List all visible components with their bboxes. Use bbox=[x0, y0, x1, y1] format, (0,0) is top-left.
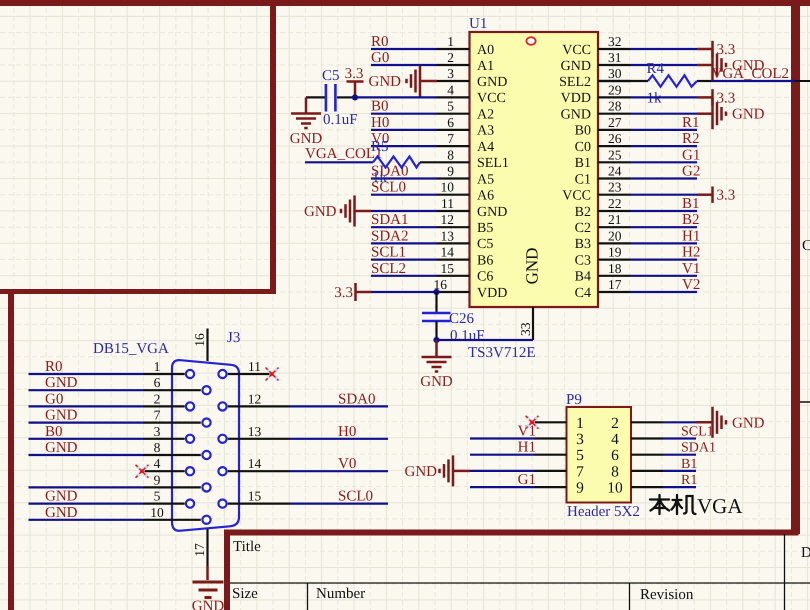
svg-text:3.3: 3.3 bbox=[334, 285, 353, 301]
svg-text:GND: GND bbox=[192, 599, 225, 610]
svg-text:6: 6 bbox=[611, 447, 619, 464]
svg-text:9: 9 bbox=[447, 164, 454, 179]
svg-text:8: 8 bbox=[154, 440, 161, 455]
svg-text:18: 18 bbox=[608, 261, 622, 276]
svg-text:GND: GND bbox=[290, 131, 323, 147]
svg-text:27: 27 bbox=[608, 115, 622, 130]
svg-text:GND: GND bbox=[477, 75, 507, 90]
svg-text:SDA1: SDA1 bbox=[681, 441, 716, 456]
svg-text:GND: GND bbox=[561, 59, 591, 74]
svg-text:B1: B1 bbox=[681, 457, 697, 472]
svg-text:VGA_COL2: VGA_COL2 bbox=[712, 66, 790, 82]
svg-text:26: 26 bbox=[608, 131, 622, 146]
svg-text:A2: A2 bbox=[477, 108, 494, 123]
svg-text:20: 20 bbox=[608, 228, 622, 243]
svg-text:GND: GND bbox=[304, 204, 337, 220]
svg-text:12: 12 bbox=[248, 391, 262, 406]
svg-text:R4: R4 bbox=[647, 61, 665, 77]
svg-text:3: 3 bbox=[447, 66, 454, 81]
svg-text:B1: B1 bbox=[575, 156, 591, 171]
svg-text:H0: H0 bbox=[338, 424, 356, 440]
svg-text:Header 5X2: Header 5X2 bbox=[567, 504, 640, 520]
svg-text:0.1uF: 0.1uF bbox=[323, 112, 358, 128]
svg-text:1: 1 bbox=[154, 359, 161, 374]
svg-text:B0: B0 bbox=[45, 424, 63, 440]
svg-text:A0: A0 bbox=[477, 43, 494, 58]
svg-text:7: 7 bbox=[447, 131, 454, 146]
svg-text:Number: Number bbox=[316, 586, 365, 602]
svg-text:24: 24 bbox=[608, 164, 622, 179]
svg-text:GND: GND bbox=[523, 248, 542, 285]
svg-text:A1: A1 bbox=[477, 59, 494, 74]
svg-text:32: 32 bbox=[608, 34, 622, 49]
svg-text:B0: B0 bbox=[371, 99, 389, 115]
svg-text:V2: V2 bbox=[682, 277, 700, 293]
svg-text:B3: B3 bbox=[575, 237, 591, 252]
svg-text:2: 2 bbox=[447, 50, 454, 65]
svg-text:H2: H2 bbox=[682, 245, 700, 261]
svg-text:14: 14 bbox=[248, 456, 262, 471]
svg-text:17: 17 bbox=[192, 543, 207, 557]
svg-text:GND: GND bbox=[45, 408, 78, 424]
svg-text:11: 11 bbox=[441, 196, 454, 211]
svg-text:R1: R1 bbox=[681, 473, 697, 488]
svg-text:31: 31 bbox=[608, 50, 622, 65]
svg-text:D: D bbox=[801, 545, 810, 561]
svg-text:4: 4 bbox=[611, 431, 619, 448]
svg-text:SCL1: SCL1 bbox=[371, 245, 406, 261]
svg-text:G1: G1 bbox=[682, 147, 700, 163]
svg-text:C0: C0 bbox=[575, 140, 591, 155]
svg-text:3.3: 3.3 bbox=[717, 188, 736, 204]
svg-text:9: 9 bbox=[154, 472, 161, 487]
svg-text:13: 13 bbox=[248, 424, 262, 439]
svg-text:8: 8 bbox=[611, 463, 619, 480]
svg-text:V1: V1 bbox=[682, 261, 700, 277]
svg-text:10: 10 bbox=[607, 480, 623, 497]
svg-text:DB15_VGA: DB15_VGA bbox=[93, 341, 169, 357]
svg-text:2: 2 bbox=[611, 415, 619, 432]
svg-text:GND: GND bbox=[405, 464, 438, 480]
svg-text:C1: C1 bbox=[575, 172, 591, 187]
svg-text:G0: G0 bbox=[371, 50, 389, 66]
svg-text:A5: A5 bbox=[477, 172, 494, 187]
svg-text:1: 1 bbox=[447, 34, 454, 49]
svg-text:GND: GND bbox=[477, 205, 507, 220]
svg-text:28: 28 bbox=[608, 99, 622, 114]
svg-text:19: 19 bbox=[608, 245, 622, 260]
svg-text:3.3: 3.3 bbox=[717, 90, 736, 106]
svg-text:A3: A3 bbox=[477, 124, 494, 139]
svg-text:SEL1: SEL1 bbox=[477, 156, 509, 171]
svg-text:H0: H0 bbox=[371, 115, 389, 131]
svg-text:GND: GND bbox=[561, 108, 591, 123]
svg-text:GND: GND bbox=[45, 440, 78, 456]
svg-text:5: 5 bbox=[576, 447, 584, 464]
svg-text:14: 14 bbox=[441, 245, 455, 260]
svg-text:29: 29 bbox=[608, 82, 622, 97]
svg-text:15: 15 bbox=[441, 261, 455, 276]
svg-text:3.3: 3.3 bbox=[345, 66, 364, 82]
svg-text:R1: R1 bbox=[682, 115, 700, 131]
svg-text:VGA: VGA bbox=[697, 494, 743, 518]
svg-text:6: 6 bbox=[447, 115, 454, 130]
svg-text:R0: R0 bbox=[371, 34, 389, 50]
svg-text:7: 7 bbox=[576, 463, 584, 480]
svg-text:11: 11 bbox=[248, 359, 261, 374]
svg-text:G0: G0 bbox=[45, 391, 63, 407]
svg-text:SCL0: SCL0 bbox=[338, 489, 373, 505]
svg-text:3.3: 3.3 bbox=[717, 42, 736, 58]
svg-text:SEL2: SEL2 bbox=[559, 75, 591, 90]
svg-text:23: 23 bbox=[608, 180, 622, 195]
svg-text:VDD: VDD bbox=[477, 286, 507, 301]
svg-text:GND: GND bbox=[420, 374, 453, 390]
svg-text:C: C bbox=[802, 238, 810, 254]
svg-text:12: 12 bbox=[441, 212, 455, 227]
svg-text:VDD: VDD bbox=[561, 91, 591, 106]
svg-text:SDA1: SDA1 bbox=[371, 212, 409, 228]
svg-text:H1: H1 bbox=[518, 440, 536, 456]
svg-text:B6: B6 bbox=[477, 253, 493, 268]
svg-text:3: 3 bbox=[576, 431, 584, 448]
svg-text:1k: 1k bbox=[372, 170, 388, 186]
svg-text:C5: C5 bbox=[322, 68, 340, 84]
svg-text:B4: B4 bbox=[575, 270, 591, 285]
svg-text:C2: C2 bbox=[575, 221, 591, 236]
svg-text:VCC: VCC bbox=[477, 91, 506, 106]
svg-text:B0: B0 bbox=[575, 124, 591, 139]
svg-text:H1: H1 bbox=[682, 228, 700, 244]
svg-text:A4: A4 bbox=[477, 140, 494, 155]
svg-text:5: 5 bbox=[447, 99, 454, 114]
svg-text:25: 25 bbox=[608, 147, 622, 162]
svg-text:A6: A6 bbox=[477, 189, 494, 204]
svg-text:0.1uF: 0.1uF bbox=[450, 328, 485, 344]
svg-text:B5: B5 bbox=[477, 221, 493, 236]
svg-text:VCC: VCC bbox=[562, 189, 591, 204]
svg-text:C6: C6 bbox=[477, 270, 493, 285]
svg-text:SCL2: SCL2 bbox=[371, 261, 406, 277]
svg-text:GND: GND bbox=[45, 505, 78, 521]
svg-text:GND: GND bbox=[45, 375, 78, 391]
svg-text:5: 5 bbox=[154, 489, 161, 504]
svg-text:SCL1: SCL1 bbox=[681, 425, 714, 440]
svg-text:GND: GND bbox=[732, 107, 765, 123]
svg-text:10: 10 bbox=[441, 180, 455, 195]
svg-text:B2: B2 bbox=[575, 205, 591, 220]
svg-text:R5: R5 bbox=[371, 139, 389, 155]
svg-text:TS3V712E: TS3V712E bbox=[468, 345, 536, 361]
svg-text:Title: Title bbox=[233, 539, 261, 555]
svg-text:17: 17 bbox=[608, 277, 622, 292]
svg-text:7: 7 bbox=[154, 408, 161, 423]
svg-text:C3: C3 bbox=[575, 253, 591, 268]
svg-text:G1: G1 bbox=[518, 472, 536, 488]
svg-text:1: 1 bbox=[576, 415, 584, 432]
svg-text:16: 16 bbox=[192, 333, 207, 347]
svg-text:13: 13 bbox=[441, 228, 455, 243]
svg-text:GND: GND bbox=[369, 74, 402, 90]
svg-text:GND: GND bbox=[732, 415, 765, 431]
svg-text:SDA0: SDA0 bbox=[338, 391, 376, 407]
svg-text:Revision: Revision bbox=[640, 587, 694, 603]
svg-text:6: 6 bbox=[154, 375, 161, 390]
svg-text:B1: B1 bbox=[682, 196, 700, 212]
svg-text:R2: R2 bbox=[682, 131, 700, 147]
svg-text:30: 30 bbox=[608, 66, 622, 81]
svg-text:9: 9 bbox=[576, 480, 584, 497]
svg-text:P9: P9 bbox=[566, 392, 582, 408]
svg-text:15: 15 bbox=[248, 489, 262, 504]
svg-text:B2: B2 bbox=[682, 212, 700, 228]
svg-text:10: 10 bbox=[150, 505, 164, 520]
svg-text:J3: J3 bbox=[227, 330, 240, 346]
svg-text:22: 22 bbox=[608, 196, 622, 211]
svg-text:4: 4 bbox=[154, 456, 161, 471]
svg-text:U1: U1 bbox=[469, 16, 487, 32]
svg-text:R0: R0 bbox=[45, 359, 63, 375]
svg-text:C5: C5 bbox=[477, 237, 493, 252]
svg-text:21: 21 bbox=[608, 212, 622, 227]
svg-text:C26: C26 bbox=[449, 311, 475, 327]
svg-text:V0: V0 bbox=[338, 456, 356, 472]
svg-text:33: 33 bbox=[518, 322, 533, 336]
svg-text:3: 3 bbox=[154, 424, 161, 439]
svg-text:GND: GND bbox=[45, 489, 78, 505]
svg-text:Size: Size bbox=[232, 586, 258, 602]
svg-text:VCC: VCC bbox=[562, 43, 591, 58]
svg-text:4: 4 bbox=[447, 82, 454, 97]
svg-text:2: 2 bbox=[154, 391, 161, 406]
svg-text:8: 8 bbox=[447, 147, 454, 162]
svg-text:SDA2: SDA2 bbox=[371, 228, 409, 244]
svg-text:C4: C4 bbox=[575, 286, 591, 301]
svg-text:G2: G2 bbox=[682, 164, 700, 180]
